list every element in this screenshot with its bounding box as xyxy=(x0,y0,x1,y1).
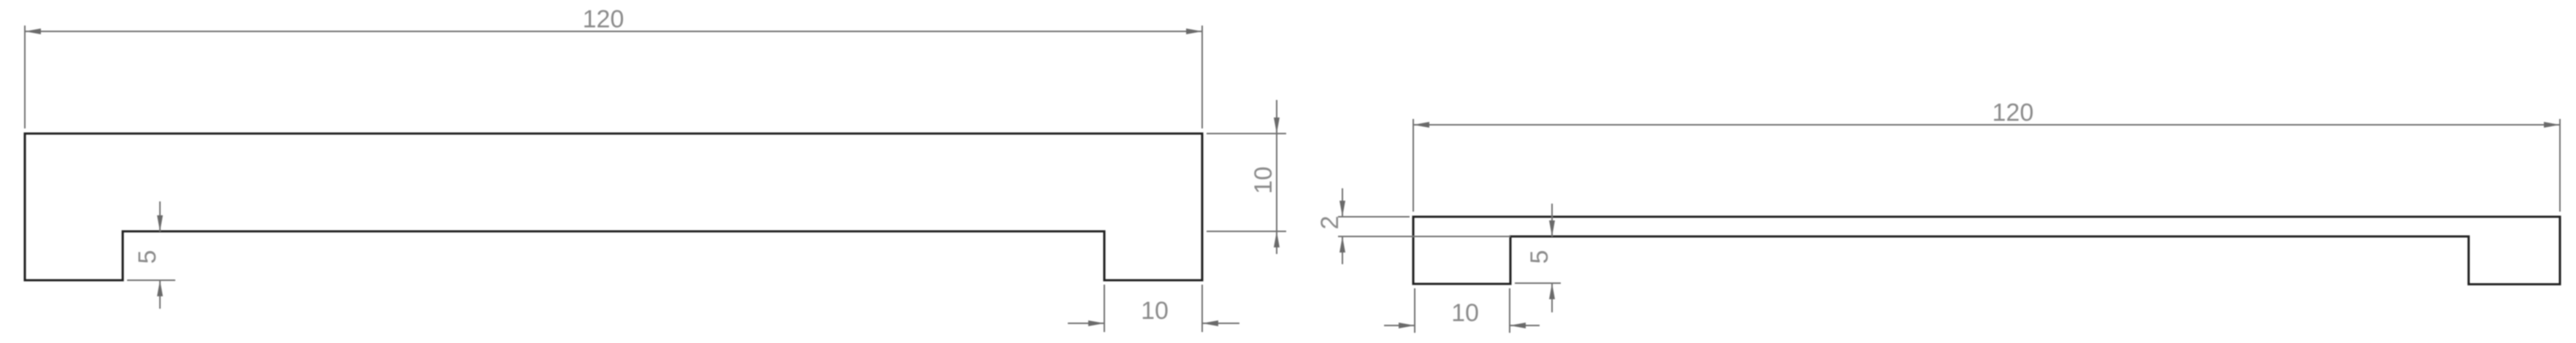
right view: dim 2 dimension line lower tail xyxy=(1342,236,1343,264)
svg-text:5: 5 xyxy=(1526,250,1553,264)
right view: dim 2 arrow lower xyxy=(1339,236,1345,253)
right view: dim 10 bottom dimension line right tail xyxy=(1510,325,1540,326)
right view: dim 120 dimension line xyxy=(1413,124,2560,126)
left view: dim 10 vertical dimension line xyxy=(1276,100,1277,254)
left view: dim 10 vertical arrow lower xyxy=(1274,231,1280,247)
svg-text:120: 120 xyxy=(1992,99,2034,127)
left view: dim 10 bottom arrow right xyxy=(1202,320,1218,326)
right view: dim 2 extension line bottom xyxy=(1338,236,1510,237)
left view: part outline xyxy=(25,134,1202,280)
right view: dim 5 dimension line upper tail xyxy=(1551,204,1553,236)
right view: dim 2 extension line top xyxy=(1338,216,1410,217)
right view: dim 5 arrow upper xyxy=(1549,220,1555,236)
left view: dim 120 dimension line xyxy=(25,31,1202,32)
left view: dim 5 arrow lower xyxy=(157,280,163,296)
right view: dim 120 extension line left xyxy=(1413,119,1414,212)
right view: dim 120 arrow right xyxy=(2544,122,2560,128)
left view: dim 10 vertical extension line bottom xyxy=(1207,231,1286,232)
left view: dim 120 extension line left xyxy=(24,26,26,128)
right view: dim 10 bottom extension line right xyxy=(1509,288,1510,333)
left view: dim 5 dimension line lower tail xyxy=(159,280,161,309)
svg-text:10: 10 xyxy=(1141,297,1169,325)
right view: dim 10 bottom arrow right xyxy=(1510,323,1526,328)
left view: dim 10 vertical arrow upper xyxy=(1274,117,1280,134)
left view: dim 10 bottom extension line left xyxy=(1104,285,1105,332)
left view: dim 120 arrow left xyxy=(25,28,41,34)
left view: dim 10 bottom extension line right xyxy=(1201,285,1203,332)
right view: dim 10 bottom extension line left xyxy=(1414,288,1415,333)
svg-text:10: 10 xyxy=(1451,299,1479,327)
right view: part outline xyxy=(1413,217,2560,285)
right view: dim 10 bottom dimension line left tail xyxy=(1384,325,1415,326)
svg-text:5: 5 xyxy=(134,250,161,264)
right view: dim 5 arrow lower xyxy=(1549,283,1555,299)
left view: dim 10 bottom arrow left xyxy=(1088,320,1104,326)
right view: dim 120 arrow left xyxy=(1413,122,1429,128)
right view: dim 5 extension line xyxy=(1515,282,1561,284)
svg-text:120: 120 xyxy=(583,6,624,34)
left view: dim 10 vertical extension line top xyxy=(1207,133,1286,134)
left view: dim 10 bottom dimension line right tail xyxy=(1202,323,1239,324)
svg-text:10: 10 xyxy=(1250,166,1277,194)
left view: dim 5 dimension line upper tail xyxy=(159,201,161,231)
right view: dim 5 dimension line lower tail xyxy=(1551,283,1553,312)
right view: dim 2 arrow upper xyxy=(1339,201,1345,217)
left view: dim 5 arrow upper xyxy=(157,215,163,231)
right view: dim 10 bottom arrow left xyxy=(1399,323,1415,328)
right view: dim 2 dimension line upper tail xyxy=(1342,188,1343,217)
svg-text:2: 2 xyxy=(1316,216,1344,230)
right view: dim 120 extension line right xyxy=(2559,119,2561,212)
left view: dim 5 extension line xyxy=(127,280,175,281)
left view: dim 10 bottom dimension line left tail xyxy=(1068,323,1104,324)
left view: dim 120 extension line right xyxy=(1201,26,1203,128)
left view: dim 120 arrow right xyxy=(1186,28,1202,34)
